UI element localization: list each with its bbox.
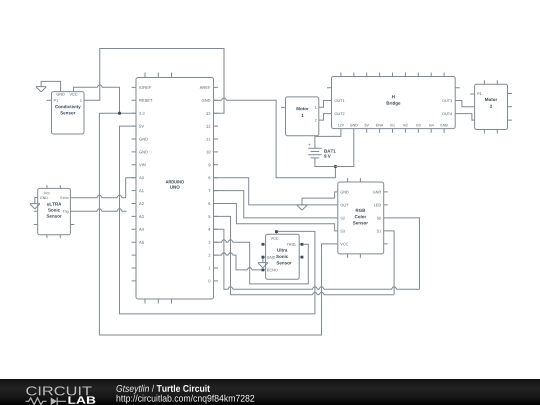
battery BAT1	[308, 133, 354, 167]
wire RGB S0 down	[384, 218, 420, 289]
wire arduino GND to battery minus	[214, 98, 336, 178]
wire arduino 4 to RGB S0	[214, 229, 420, 289]
ground (ultra GND)	[258, 263, 268, 268]
wire uLTRA Trig (open end)	[70, 209, 126, 211]
wire arduino 3 to ultra TRIG	[214, 240, 309, 284]
wire ultra GND to ground	[262, 259, 264, 263]
junction node 3.3	[118, 112, 121, 115]
wire cond pin1 to arduino 13	[84, 49, 224, 114]
wire OUT3 to motor2	[455, 101, 474, 107]
motor M1	[281, 97, 319, 136]
wire RGB S1 down	[384, 231, 394, 295]
h-bridge U2	[327, 73, 460, 133]
RGB color sensor	[338, 178, 388, 258]
wire RGB GND to ground	[302, 192, 338, 205]
conductivity sensor	[47, 92, 85, 134]
wire 5V net to ultra sonic VCC	[120, 126, 315, 314]
wire arduino 7 to RGB S2	[214, 191, 338, 218]
wire motor1 pin2 to OUT2	[319, 114, 332, 121]
ground (RGB GND)	[297, 205, 307, 210]
ground (uLTRA GND)	[30, 204, 40, 209]
wire uLTRA GND to ground	[35, 198, 38, 204]
footer bar	[0, 379, 540, 405]
wire arduino 2 to ultra ECHO	[214, 253, 262, 270]
wire arduino 6 to RGB S3	[214, 204, 338, 231]
wire OUT4 to motor2	[455, 114, 474, 121]
ground (conductivity GND)	[36, 81, 61, 92]
wire uLTRA Echo to arduino A0	[70, 178, 136, 198]
wire arduino 5 to RGB S1	[214, 216, 395, 294]
junction node battery minus	[334, 165, 337, 168]
wire 3.3V net to RGB VCC	[99, 113, 337, 335]
wire cond VCC to 3.3 node	[74, 85, 120, 113]
arduino U1	[132, 73, 219, 304]
ultra sonic sensor (center)	[262, 230, 304, 279]
wire motor1 pin1 to OUT1	[319, 101, 332, 108]
wire arduino 8 to RGB OUT	[214, 178, 338, 205]
motor M2	[470, 80, 512, 133]
uLTRA sonic sensor (left)	[34, 185, 75, 238]
